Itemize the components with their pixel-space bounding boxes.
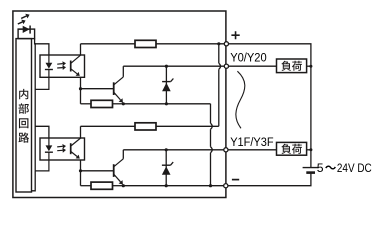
resistor R4 [91, 182, 113, 189]
transistor Q1 base bar [113, 82, 115, 95]
internal circuit box (内部回路) [16, 39, 32, 192]
transistor Q1 collector stroke [114, 77, 124, 85]
junction: zener D1 top [165, 65, 168, 68]
PC2 emitter stroke [71, 151, 80, 158]
PC2 LED triangle [46, 145, 53, 151]
junction: zener D2 top [165, 148, 168, 151]
wire: R2 to emitter node [113, 103, 124, 105]
PC1 LED cathode bar [45, 69, 53, 71]
wire: emitter rail ch2 to - terminal [123, 185, 226, 187]
wire: drop to R2 [81, 103, 92, 105]
wire: emitter rail ch1 [123, 103, 210, 105]
battery BT1 negative plate [306, 171, 315, 174]
junction: load 2 rail [309, 148, 312, 151]
junction: Q2 base node [79, 169, 82, 172]
wire: Q1 collector riser [122, 66, 124, 77]
junction: zener D2 bottom [165, 184, 168, 187]
terminal Y0/Y20 circle [224, 64, 228, 68]
junction: + feed bus tap [217, 42, 220, 45]
label 5~24V DC [317, 161, 372, 175]
label 内部回路 (vertical) [18, 89, 29, 143]
PC1 phototransistor base bar [70, 61, 72, 72]
continuation squiggle [236, 71, 245, 128]
wire: battery to - terminal [228, 173, 311, 186]
wire: R3 to + feed bus [156, 125, 219, 127]
zener D2 cathode bar [162, 162, 173, 165]
wire: base-emitter drop [80, 89, 82, 104]
junction: Q1 emitter node [122, 102, 125, 105]
wire: pull-up line to R1 [81, 43, 136, 45]
PC1 collector stroke [71, 55, 81, 63]
hop: + bus over Y0 line [219, 63, 221, 69]
PC1 emitter stroke [71, 69, 80, 76]
label Y0/Y20 [230, 50, 267, 64]
svg-text:24V DC: 24V DC [337, 161, 372, 175]
zener D2 wire [165, 150, 167, 186]
wire: Q2 base wire [81, 170, 114, 172]
wire: base-emitter drop 2 [80, 171, 82, 186]
wire: Y1F output line [123, 149, 226, 151]
optocoupler PC1 box [40, 55, 85, 77]
wire: Y0 output line [123, 65, 226, 67]
wire: load 1 to rail [307, 65, 311, 67]
wire: load 2 to rail [307, 149, 311, 151]
wire: opto PC2 anode feed [35, 126, 49, 138]
optocoupler PC2 box [40, 138, 85, 160]
transistor Q1 emitter stroke [114, 92, 123, 102]
hop: COM bus over Y1F line [211, 147, 213, 153]
PC2 phototransistor base bar [70, 143, 72, 154]
label - [232, 179, 239, 181]
wire: pull-up line 2 to R3 [81, 125, 136, 127]
LED D0 cathode bar [29, 26, 31, 34]
wire: PC2 collector riser to pull-up line [80, 126, 82, 138]
load box 2 [277, 142, 307, 155]
wire: PC1 emitter riser [80, 77, 82, 88]
junction: COM bus to minus rail [209, 184, 212, 187]
resistor R1 [135, 40, 156, 47]
zener D1 triangle [162, 83, 171, 91]
terminal Y1F/Y3F circle [224, 148, 228, 152]
label Y1F/Y3F [230, 135, 273, 149]
wire: COM bus [210, 104, 212, 186]
PLC enclosure frame [13, 11, 226, 198]
wire: PC2 emitter riser [80, 160, 82, 171]
resistor R2 [91, 100, 113, 107]
wire: Y0 to load 1 [229, 65, 277, 67]
LED D0 light arrow 1 [21, 14, 29, 19]
wire: R4 to emitter node 2 [113, 185, 124, 187]
wire: PC1 cathode return [35, 70, 49, 90]
PC1 LED anode lead [48, 55, 50, 63]
wire: R1 to + terminal [156, 43, 226, 45]
wire: internal feed bus [34, 39, 37, 171]
PC1 light arrow 1 [57, 61, 66, 66]
LED D0 light arrow 2 [18, 20, 26, 25]
PC2 light arrow 1 [57, 144, 66, 149]
label + [231, 31, 239, 39]
LED D0 triangle [23, 26, 30, 33]
wire: bus return to internal box [32, 171, 36, 191]
label 負荷 2 [281, 144, 302, 154]
wire: drop to R4 [81, 185, 92, 187]
zener D1 cathode bar [162, 79, 173, 82]
LED indicator box [18, 29, 34, 38]
transistor Q2 collector stroke [114, 159, 124, 167]
PC2 collector stroke [71, 138, 81, 146]
LED D0 anode lead [18, 28, 23, 30]
PC2 LED cathode bar [45, 151, 53, 153]
PC2 light arrow 2 [57, 148, 66, 153]
wire: + supply line [229, 44, 311, 167]
wire: Y1F to load 2 [228, 149, 277, 151]
PC1 LED triangle [46, 63, 53, 69]
label 負荷 1 [281, 61, 302, 71]
svg-text:Y0/Y20: Y0/Y20 [230, 50, 267, 64]
svg-text:Y1F/Y3F: Y1F/Y3F [230, 135, 273, 149]
load box 1 [277, 59, 307, 73]
hop: COM bus over pull-up line 2 [211, 123, 213, 129]
terminal + circle [224, 42, 228, 46]
junction: zener D1 bottom [165, 102, 168, 105]
PC2 LED anode lead [48, 138, 50, 146]
wire: Q2 collector riser [122, 150, 124, 159]
transistor Q2 base bar [113, 164, 115, 177]
junction: Q2 emitter node [122, 184, 125, 187]
wire: opto PC1 anode feed [35, 44, 49, 55]
svg-text:5: 5 [317, 161, 324, 175]
zener D1 wire [165, 66, 167, 104]
wire: PC1 collector riser to pull-up line [80, 44, 82, 55]
junction: Q1 base node [79, 87, 82, 90]
battery BT1 positive plate [303, 167, 319, 169]
junction: load 1 rail [309, 65, 312, 68]
resistor R3 [135, 123, 156, 130]
PC1 light arrow 2 [57, 65, 66, 70]
wire: PC2 cathode return [35, 152, 49, 171]
terminal - circle [224, 184, 228, 188]
wire: Q1 base wire [81, 88, 114, 90]
zener D2 triangle [162, 166, 171, 174]
wire: + feed bus drop [218, 44, 220, 127]
transistor Q2 emitter stroke [114, 174, 123, 184]
